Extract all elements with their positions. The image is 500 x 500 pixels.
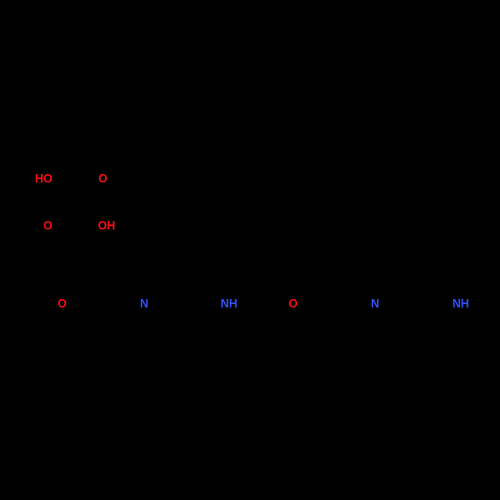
svg-text:N: N [140, 297, 148, 310]
svg-text:O: O [289, 297, 298, 310]
svg-text:OH: OH [98, 219, 115, 232]
svg-text:N: N [371, 297, 379, 310]
svg-text:NH: NH [452, 297, 469, 310]
svg-text:O: O [98, 173, 107, 186]
svg-text:NH: NH [221, 297, 238, 310]
svg-text:O: O [58, 297, 67, 310]
svg-text:HO: HO [35, 173, 52, 186]
svg-text:O: O [43, 219, 52, 232]
